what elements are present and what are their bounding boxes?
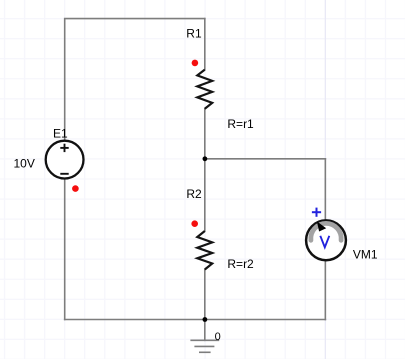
svg-text:R1: R1 bbox=[186, 27, 202, 41]
svg-text:E1: E1 bbox=[53, 127, 68, 141]
svg-text:10V: 10V bbox=[14, 157, 35, 171]
svg-text:R2: R2 bbox=[186, 187, 202, 201]
svg-text:VM1: VM1 bbox=[353, 248, 378, 262]
svg-text:R=r2: R=r2 bbox=[227, 257, 254, 271]
svg-text:0: 0 bbox=[215, 331, 221, 343]
svg-text:R=r1: R=r1 bbox=[227, 117, 254, 131]
